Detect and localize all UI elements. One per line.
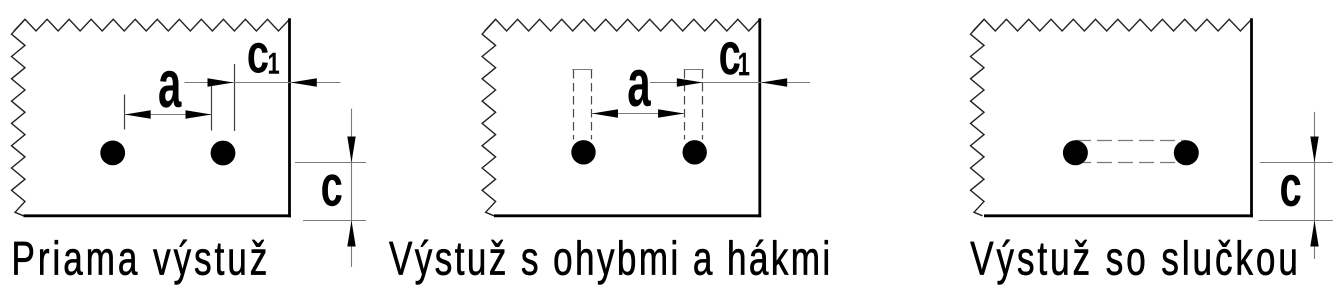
- dimension line c (diagram 1): [351, 109, 353, 267]
- label c1 letter c (diagram 1): [248, 43, 267, 73]
- extension line for c, upper (diagram 3): [1260, 162, 1333, 164]
- label a (diagram 1): [159, 71, 181, 108]
- loop bar (slucka) dashed bottom edge: [1076, 162, 1186, 164]
- arrowhead a right (diagram 1): [186, 110, 212, 118]
- label c (diagram 1): [322, 174, 342, 206]
- concrete section 1 bottom face: [24, 214, 291, 217]
- arrowhead c top (diagram 1): [347, 137, 355, 163]
- arrowhead c bottom (diagram 3): [1310, 221, 1318, 247]
- arrowhead c1 left (diagram 2): [677, 78, 703, 86]
- arrowhead a left (diagram 2): [592, 109, 618, 117]
- rebar bar 1b (section dot): [211, 141, 236, 166]
- concrete section 3 right face: [1250, 18, 1253, 217]
- label c1 letter c (diagram 2): [720, 42, 740, 75]
- arrowhead c top (diagram 3): [1310, 137, 1318, 163]
- caption 3: Vystuz so sluckou: [970, 240, 1295, 285]
- rebar bar 3a (section dot): [1063, 140, 1088, 165]
- bent-up bar (hook) left: dashed hidden outline: [573, 70, 575, 140]
- caption 2: Vystuz s ohybmi a hakmi: [389, 240, 828, 285]
- extension line for c, upper (diagram 1): [295, 162, 366, 164]
- extension line for a, left (diagram 1): [124, 95, 126, 130]
- extension line for c, lower (diagram 1): [303, 220, 366, 222]
- extension line for c1 (diagram 1): [234, 64, 236, 131]
- dimension line c (diagram 3): [1314, 112, 1316, 259]
- concrete section 1 top zigzag (broken edge): [14, 19, 290, 31]
- label c1 subscript 1 (diagram 2): [739, 53, 749, 76]
- dimension line a (diagram 1): [125, 114, 212, 116]
- arrowhead a right (diagram 2): [658, 109, 684, 117]
- concrete section 2 left zigzag (broken edge): [482, 19, 496, 216]
- label c (diagram 3): [1281, 175, 1301, 207]
- concrete section 1 left zigzag (broken edge): [12, 19, 26, 216]
- concrete section 3 top zigzag (broken edge): [973, 19, 1252, 31]
- concrete section 3 bottom face: [984, 214, 1253, 217]
- extension line for c, lower (diagram 3): [1259, 220, 1333, 222]
- rebar bar 2b (section dot): [683, 140, 707, 164]
- concrete section 2 bottom face: [494, 214, 761, 217]
- concrete section 2 top zigzag (broken edge): [485, 19, 760, 31]
- extension line for a, right (diagram 1): [211, 81, 213, 131]
- rebar bar 3b (section dot): [1174, 140, 1199, 165]
- label a (diagram 2): [629, 70, 651, 107]
- dimension line c1 (diagram 1): [185, 82, 341, 84]
- rebar bar 2a (section dot): [571, 140, 595, 164]
- concrete section 1 right face: [288, 18, 291, 217]
- arrowhead c1 right (diagram 1): [291, 78, 317, 86]
- bent-up bar (hook) right: dashed hidden outline: [684, 70, 686, 140]
- label c1 subscript 1 (diagram 1): [269, 53, 279, 74]
- caption 1: Priama vystuz: [14, 240, 265, 285]
- dimension line a (diagram 2): [592, 113, 685, 115]
- arrowhead c1 left (diagram 1): [208, 78, 234, 86]
- arrowhead c bottom (diagram 1): [347, 221, 355, 247]
- concrete section 2 right face: [758, 18, 761, 217]
- loop bar (slucka) dashed top edge: [1076, 140, 1186, 142]
- arrowhead c1 right (diagram 2): [761, 78, 787, 86]
- arrowhead a left (diagram 1): [125, 110, 151, 118]
- rebar bar 1a (section dot): [100, 141, 125, 166]
- concrete section 3 left zigzag (broken edge): [971, 19, 985, 216]
- dimension line c1 (diagram 2): [650, 82, 810, 84]
